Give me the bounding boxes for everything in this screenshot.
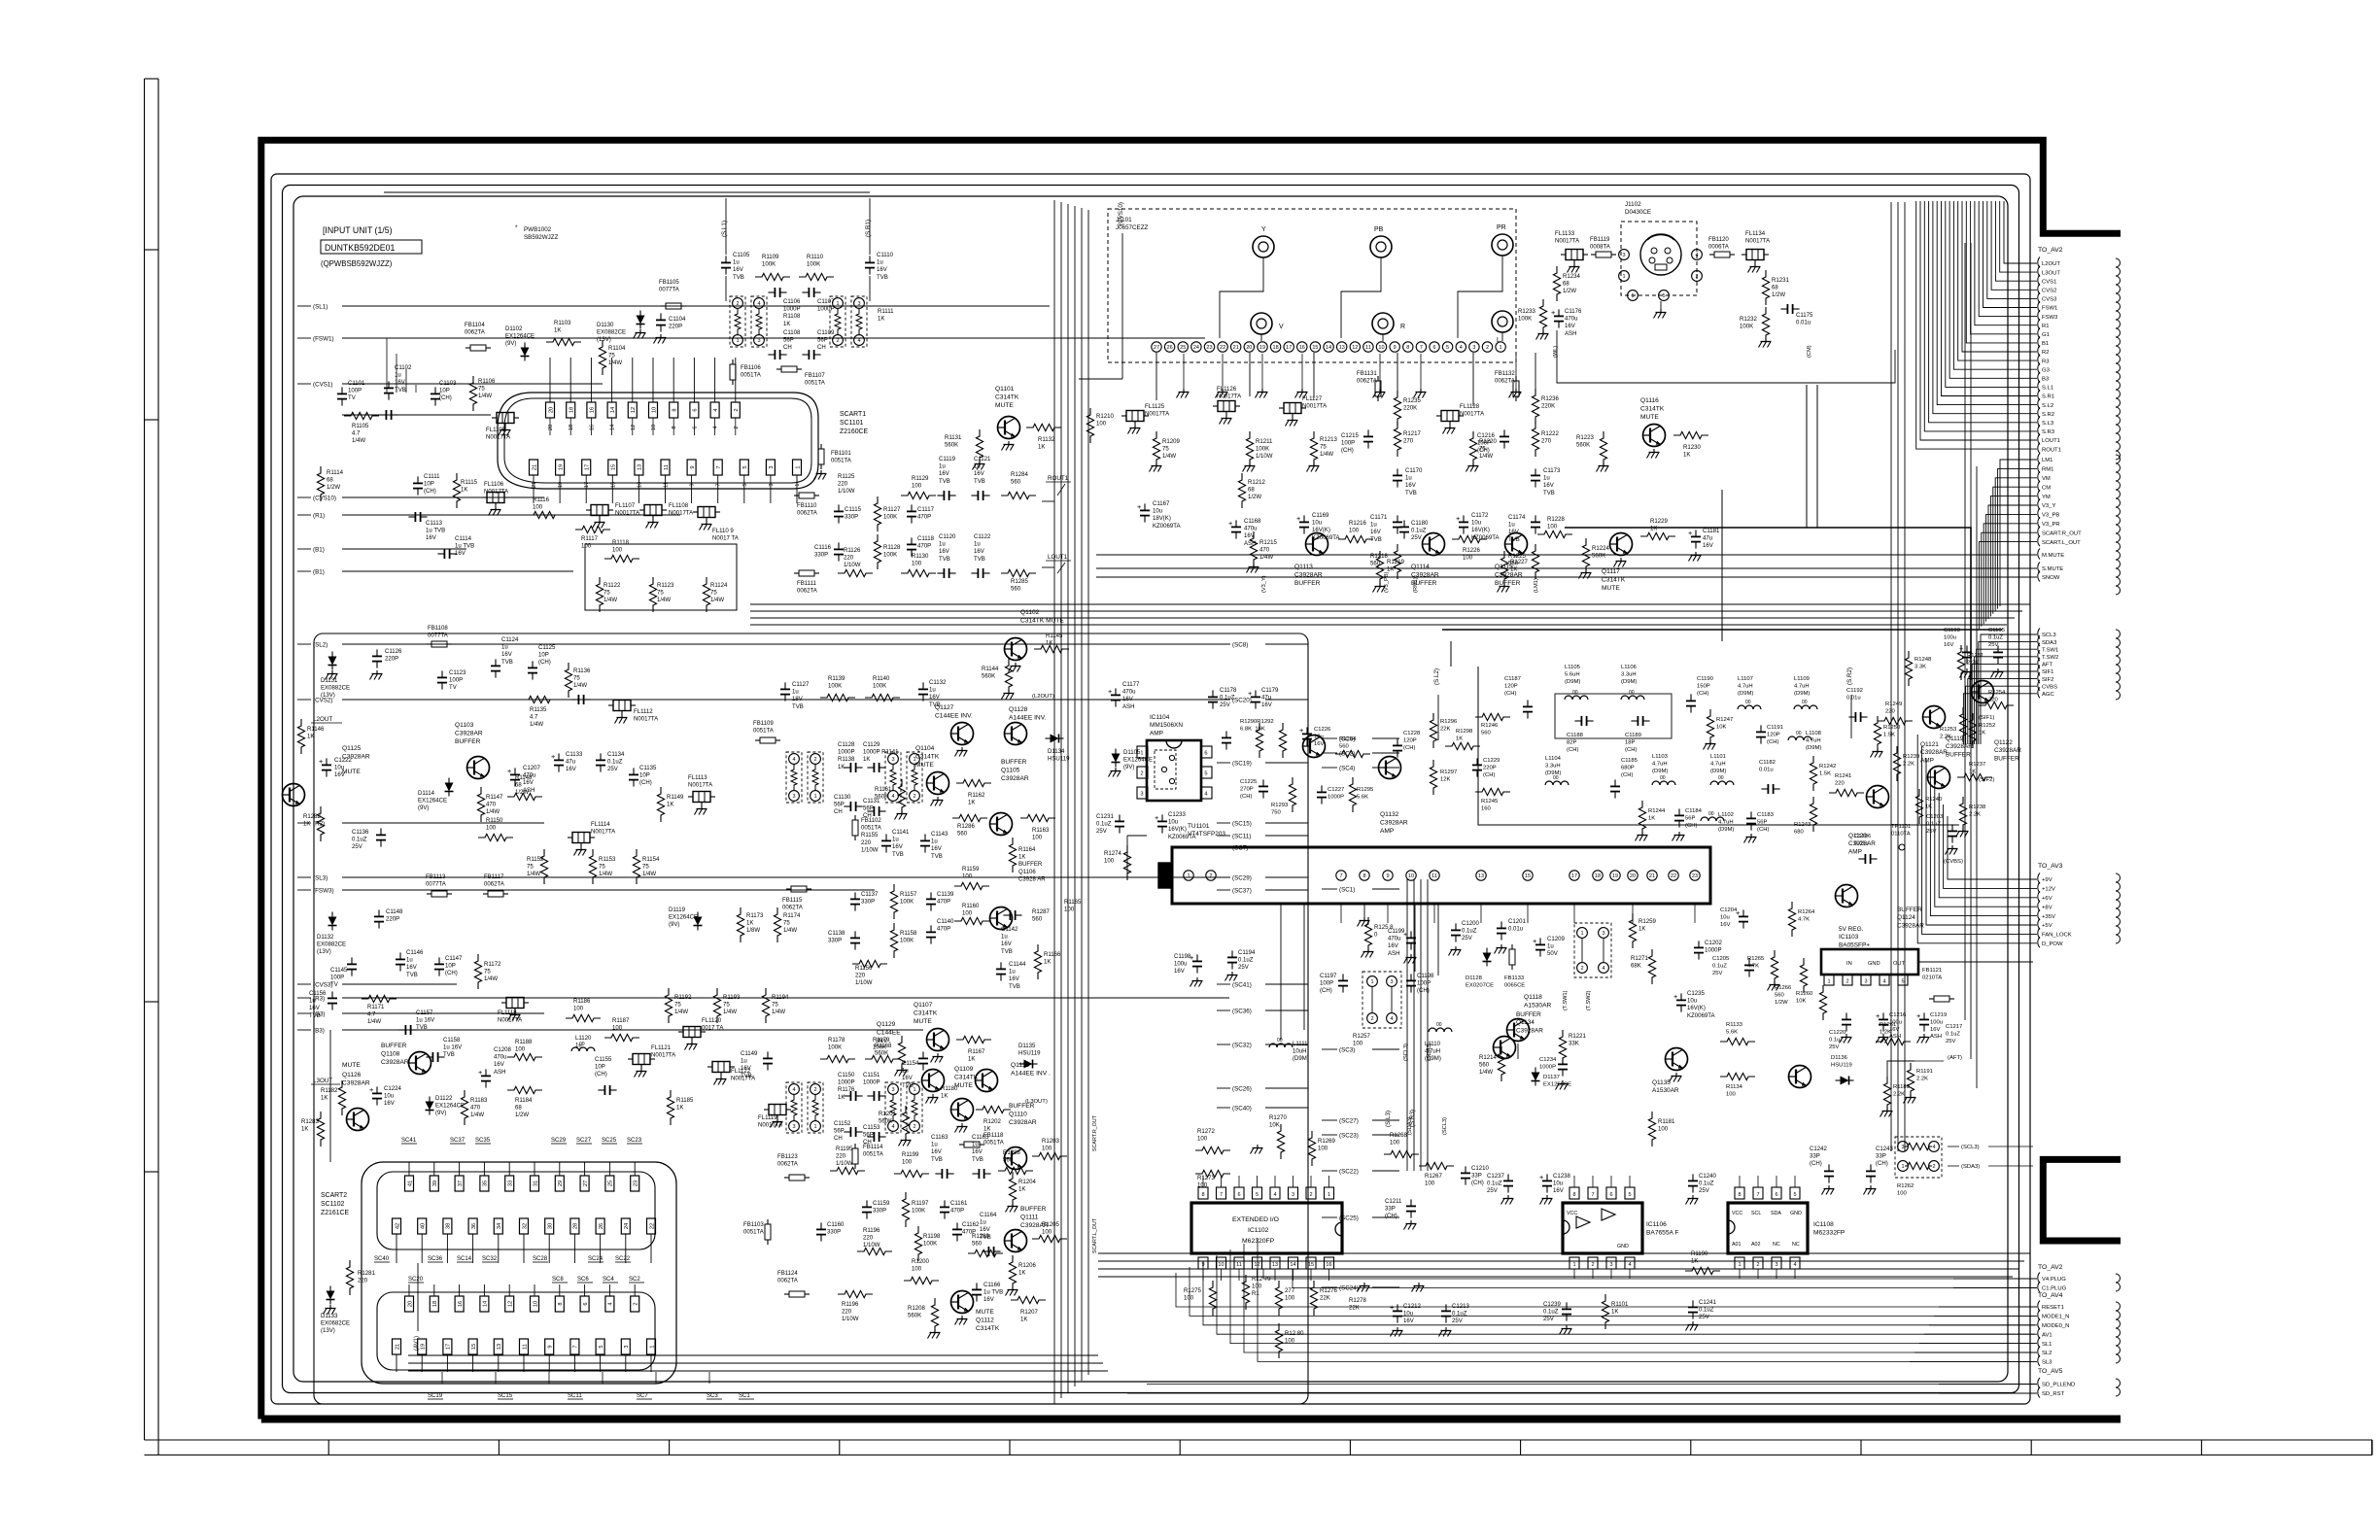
svg-text:R1189: R1189 <box>1893 1084 1910 1090</box>
svg-text:330P: 330P <box>814 553 828 559</box>
svg-text:2: 2 <box>1140 771 1143 777</box>
svg-text:1/4W: 1/4W <box>484 976 498 982</box>
svg-text:(CH): (CH) <box>1810 1161 1822 1167</box>
net SL3 <box>2038 1355 2040 1366</box>
svg-text:13: 13 <box>497 1344 502 1350</box>
svg-text:4: 4 <box>1602 966 1604 972</box>
svg-text:C1119: C1119 <box>939 457 956 462</box>
resistor R1183 470 1/4W <box>461 1090 467 1125</box>
svg-text:INV .: INV . <box>877 1038 891 1044</box>
svg-text:20: 20 <box>407 1301 413 1307</box>
resistor R1123 75 1/4W <box>649 577 656 612</box>
zener D1128 EX0207CE <box>1483 953 1492 962</box>
svg-text:270: 270 <box>1541 439 1552 445</box>
capacitor C1181 47u 16V <box>1691 535 1701 537</box>
svg-text:R1203: R1203 <box>1042 1139 1059 1145</box>
svg-text:1000P: 1000P <box>783 307 801 313</box>
capacitor C1140 470P <box>926 931 936 933</box>
capacitor C1149 1u 16V TVB <box>763 1057 773 1059</box>
svg-text:L3OUT: L3OUT <box>2042 270 2060 276</box>
diode D1134 HSU119 <box>1051 735 1059 743</box>
svg-text:C1219: C1219 <box>1930 1012 1947 1018</box>
svg-text:47u: 47u <box>566 760 575 766</box>
transistor Q1118 A1530AR <box>1507 1019 1530 1042</box>
svg-text:R1238: R1238 <box>1969 804 1986 810</box>
svg-text:1: 1 <box>1580 931 1583 937</box>
svg-text:16V: 16V <box>1703 543 1714 549</box>
svg-text:R1196: R1196 <box>863 1228 880 1234</box>
svg-text:220K: 220K <box>1541 404 1555 410</box>
net +5V power <box>2038 919 2040 930</box>
svg-text:4.7uH: 4.7uH <box>1738 683 1753 689</box>
svg-text:TVB: TVB <box>1370 537 1382 543</box>
resistor R1126 220 1/10W <box>838 569 873 576</box>
svg-text:220: 220 <box>358 1279 368 1284</box>
capacitor C1195 0.1uZ 25V <box>1993 651 2003 653</box>
svg-text:0062TA: 0062TA <box>797 589 818 595</box>
svg-text:(CH): (CH) <box>1876 1161 1888 1167</box>
svg-text:C1115: C1115 <box>845 507 862 513</box>
svg-text:0.01u: 0.01u <box>1854 840 1869 846</box>
svg-text:R1140: R1140 <box>873 676 890 682</box>
svg-text:13: 13 <box>1478 873 1484 879</box>
svg-text:100: 100 <box>573 1007 584 1012</box>
svg-text:470u: 470u <box>1565 317 1578 323</box>
svg-text:1/10W: 1/10W <box>838 489 855 495</box>
svg-text:C1108: C1108 <box>783 330 801 336</box>
capacitor C1110 1u 16V TVB <box>865 261 875 263</box>
svg-text:1u: 1u <box>501 645 508 651</box>
svg-text:2.2K: 2.2K <box>1916 1076 1928 1081</box>
svg-text:14: 14 <box>1326 345 1331 351</box>
resistor R1260 10K <box>1819 985 1826 1020</box>
svg-text:4: 4 <box>1695 253 1698 258</box>
svg-text:100: 100 <box>486 826 497 832</box>
svg-text:+: + <box>1228 519 1232 528</box>
svg-text:1u: 1u <box>575 1044 582 1049</box>
svg-text:3: 3 <box>769 465 775 468</box>
resistor R1223 560K <box>1600 431 1606 466</box>
svg-text:560: 560 <box>1011 480 1021 486</box>
resistor R1131 560K <box>976 429 983 464</box>
svg-text:L1120: L1120 <box>575 1036 592 1042</box>
svg-text:560K: 560K <box>945 443 958 449</box>
resistor R1212 68 1/2W <box>1238 473 1245 508</box>
svg-text:270: 270 <box>1403 439 1414 445</box>
SCART2 upper pins row2 <box>393 1218 401 1234</box>
svg-text:7: 7 <box>1339 873 1342 879</box>
svg-text:D1128: D1128 <box>1466 975 1483 981</box>
svg-text:18V(K): 18V(K) <box>1153 516 1171 522</box>
SCART2 lower pins row2 <box>393 1339 401 1354</box>
svg-text:R1134: R1134 <box>1726 1084 1743 1090</box>
svg-text:(SC41): (SC41) <box>1232 981 1252 988</box>
inner bus loop 3 <box>293 196 2008 1382</box>
svg-text:1/2W: 1/2W <box>515 790 529 796</box>
capacitor C1150 1000P <box>849 1091 851 1101</box>
svg-text:C3928AR: C3928AR <box>1495 571 1523 578</box>
svg-text:R1158: R1158 <box>900 931 917 937</box>
svg-text:15: 15 <box>1312 345 1318 351</box>
svg-text:100K: 100K <box>900 900 914 906</box>
svg-text:34: 34 <box>497 1223 502 1229</box>
svg-text:C1134: C1134 <box>607 752 625 758</box>
net L3OUT to AV2 <box>2038 266 2040 277</box>
diode D1114 EX1264CE 9V <box>445 783 454 792</box>
svg-text:1/4W: 1/4W <box>1320 452 1333 458</box>
resistor R1207 1K <box>1011 1296 1046 1303</box>
svg-text:C1110: C1110 <box>877 253 894 258</box>
svg-text:3: 3 <box>1390 979 1393 985</box>
svg-text:12: 12 <box>631 407 637 413</box>
svg-text:R1104: R1104 <box>608 346 626 352</box>
svg-text:TV: TV <box>348 395 357 401</box>
svg-text:C144EE INV.: C144EE INV. <box>935 712 973 719</box>
svg-text:TV: TV <box>449 685 458 691</box>
capacitor C1243 33P CH <box>1866 1170 1876 1172</box>
svg-text:25V: 25V <box>1096 829 1108 835</box>
thick frame bracket right-bottom <box>2043 1159 2121 1241</box>
svg-text:M62320FP: M62320FP <box>1242 1238 1275 1245</box>
capacitor C1185 680P CH <box>1610 785 1620 787</box>
svg-text:(CH): (CH) <box>1320 988 1332 994</box>
svg-text:68: 68 <box>1563 282 1569 288</box>
svg-text:(SIF1): (SIF1) <box>1979 715 1994 721</box>
svg-text:5: 5 <box>1204 771 1207 777</box>
filter FL1113 N0017TA <box>693 792 710 803</box>
resistor R1298 1K <box>1445 742 1480 749</box>
svg-text:8: 8 <box>1572 1192 1575 1198</box>
svg-text:R1206: R1206 <box>1018 1263 1036 1269</box>
svg-text:RESET1: RESET1 <box>2042 1305 2064 1311</box>
resistor R1289 560 <box>968 1249 1003 1256</box>
capacitor C1193 100u 16V <box>1962 651 1972 653</box>
svg-text:10P: 10P <box>538 653 549 659</box>
svg-text:R1161: R1161 <box>875 787 892 793</box>
svg-text:10u: 10u <box>1168 820 1178 826</box>
svg-text:RM1: RM1 <box>2042 467 2053 473</box>
svg-text:Q1122: Q1122 <box>1994 739 2013 746</box>
svg-text:220: 220 <box>838 482 848 488</box>
svg-text:C1127: C1127 <box>792 682 810 688</box>
bead FB1103 0051TA <box>765 1224 771 1240</box>
svg-text:100K: 100K <box>1256 447 1269 453</box>
svg-text:R1217: R1217 <box>1403 431 1421 437</box>
svg-text:25: 25 <box>1180 345 1186 351</box>
svg-text:SCART.R_OUT: SCART.R_OUT <box>2042 530 2082 536</box>
svg-text:C3928AR: C3928AR <box>1897 922 1924 929</box>
svg-text:TVB: TVB <box>1009 984 1020 990</box>
phase network block C1106 area <box>730 296 745 347</box>
svg-text:GND: GND <box>1868 961 1880 967</box>
svg-text:C1202: C1202 <box>1705 941 1722 946</box>
svg-text:SC15: SC15 <box>498 1393 513 1399</box>
svg-text:R1211: R1211 <box>1256 439 1273 445</box>
capacitor C1122 1u 16V TVB <box>977 568 979 578</box>
svg-text:R1223: R1223 <box>1576 435 1594 441</box>
svg-text:MUTE: MUTE <box>914 1018 932 1025</box>
resistor R1181 100 <box>1648 1112 1655 1146</box>
svg-text:(D9M): (D9M) <box>1425 1056 1441 1062</box>
svg-text:1K: 1K <box>983 1127 990 1133</box>
net T.SW1 <box>2038 643 2040 654</box>
svg-text:C1163: C1163 <box>931 1135 949 1141</box>
svg-text:10u: 10u <box>1553 1181 1563 1187</box>
svg-text:56P: 56P <box>863 1133 874 1139</box>
svg-text:TO_AV3: TO_AV3 <box>2038 863 2063 870</box>
svg-text:22K: 22K <box>1320 1296 1330 1302</box>
svg-text:N0017TA: N0017TA <box>486 435 511 441</box>
svg-text:A144EE INV.: A144EE INV. <box>1009 714 1046 721</box>
svg-text:16V: 16V <box>974 549 985 555</box>
svg-text:1/4W: 1/4W <box>1259 555 1273 561</box>
svg-text:R1133: R1133 <box>1726 1022 1743 1028</box>
svg-text:560K: 560K <box>982 674 995 680</box>
svg-text:1u: 1u <box>939 542 946 548</box>
svg-text:1/10W: 1/10W <box>861 847 879 853</box>
svg-text:C1208: C1208 <box>494 1047 511 1053</box>
svg-text:BUFFER: BUFFER <box>1009 1103 1035 1110</box>
svg-text:1u: 1u <box>733 260 740 266</box>
wavy TO_AV2 bottom <box>2116 1274 2121 1291</box>
svg-text:Q1124: Q1124 <box>1897 914 1915 921</box>
svg-text:68: 68 <box>515 783 522 789</box>
svg-text:D0430CE: D0430CE <box>1625 209 1651 216</box>
resistor R1117 100 <box>575 526 610 532</box>
wires bottom ICs to right bracket <box>1176 1273 2035 1307</box>
svg-text:R1196: R1196 <box>842 1302 859 1308</box>
svg-text:OUT: OUT <box>1893 961 1906 967</box>
resistor R1105 4.7 <box>344 412 379 419</box>
resistor R1197 100K <box>902 1192 909 1227</box>
svg-text:100: 100 <box>612 1026 623 1032</box>
svg-text:R1242: R1242 <box>1819 764 1836 770</box>
svg-text:4: 4 <box>1390 1016 1393 1022</box>
svg-text:1/2W: 1/2W <box>515 1112 529 1118</box>
svg-text:18P: 18P <box>1625 739 1636 745</box>
svg-text:37: 37 <box>458 1181 464 1186</box>
svg-text:75: 75 <box>478 387 485 393</box>
svg-text:C1122: C1122 <box>974 534 991 540</box>
svg-text:220P: 220P <box>386 917 399 923</box>
svg-text:A144EE INV .: A144EE INV . <box>1011 1070 1051 1077</box>
svg-text:0062TA: 0062TA <box>484 882 505 888</box>
svg-text:IN: IN <box>1846 961 1852 967</box>
svg-text:1: 1 <box>795 483 801 486</box>
capacitor C1224 10u 16V <box>372 1092 382 1094</box>
diode D1133 EX0682CE <box>327 1291 335 1300</box>
svg-text:R1260: R1260 <box>1796 991 1813 997</box>
svg-text:TVB: TVB <box>877 275 888 281</box>
svg-text:C1226: C1226 <box>1314 727 1331 733</box>
IC1108 M62332FP <box>1728 1203 1808 1253</box>
svg-text:2.2K: 2.2K <box>1893 1091 1905 1097</box>
capacitor C1128 1000P labels <box>849 763 851 772</box>
svg-text:R1157: R1157 <box>900 892 917 898</box>
svg-text:25V: 25V <box>1699 1188 1710 1194</box>
capacitor C1116 330P <box>834 548 844 550</box>
svg-text:S.L2: S.L2 <box>2042 403 2053 409</box>
svg-text:FL1127: FL1127 <box>1302 396 1323 402</box>
svg-text:TVB: TVB <box>792 704 804 710</box>
svg-text:16V: 16V <box>892 844 904 850</box>
svg-text:1/4W: 1/4W <box>486 809 500 815</box>
svg-text:C1238: C1238 <box>1553 1174 1570 1180</box>
svg-text:00: 00 <box>1629 690 1635 696</box>
svg-text:0062TA: 0062TA <box>1357 379 1378 385</box>
svg-text:(SC20): (SC20) <box>1232 697 1252 703</box>
bead FB1105 0077TA <box>666 303 681 309</box>
svg-text:R1159: R1159 <box>962 867 980 873</box>
svg-text:25: 25 <box>608 1181 614 1186</box>
svg-text:C1170: C1170 <box>1405 468 1423 474</box>
svg-text:1K: 1K <box>878 317 884 323</box>
svg-text:FB1107: FB1107 <box>805 373 825 379</box>
J1101 pin grounds <box>1183 389 1185 393</box>
svg-text:15: 15 <box>611 464 617 470</box>
svg-text:C1105: C1105 <box>733 253 750 258</box>
svg-text:C1152: C1152 <box>834 1121 851 1127</box>
svg-text:N0017TA: N0017TA <box>484 490 509 496</box>
svg-text:R1162: R1162 <box>968 793 985 799</box>
svg-text:82P: 82P <box>1567 739 1577 745</box>
svg-text:R1235: R1235 <box>1403 398 1421 404</box>
svg-text:4.7: 4.7 <box>352 431 361 437</box>
svg-text:56P: 56P <box>1757 819 1768 825</box>
svg-text:4: 4 <box>1460 345 1463 351</box>
svg-text:C1222: C1222 <box>334 758 352 764</box>
svg-text:1K: 1K <box>676 1106 683 1112</box>
svg-text:220K: 220K <box>1403 406 1417 412</box>
svg-text:L1108: L1108 <box>1806 731 1822 736</box>
inductor L1102 4.7uH D9M <box>1701 817 1724 821</box>
transistor Q1129 <box>922 1070 945 1092</box>
svg-text:VT4TSFP203: VT4TSFP203 <box>1188 831 1225 838</box>
svg-text:EX0682CE: EX0682CE <box>321 1321 350 1327</box>
svg-text:160: 160 <box>1481 805 1492 811</box>
svg-text:NC: NC <box>1773 1242 1780 1248</box>
svg-text:C1147: C1147 <box>445 956 463 962</box>
svg-text:J0657CEZZ: J0657CEZZ <box>1116 224 1149 231</box>
resistor R1208 560K <box>931 1298 938 1333</box>
svg-text:100K: 100K <box>873 684 886 690</box>
resistor R1297 12K <box>1430 760 1436 795</box>
svg-text:17: 17 <box>585 464 591 470</box>
svg-text:1u: 1u <box>939 464 946 470</box>
net V3_PR <box>2038 517 2040 528</box>
svg-text:A1530AR: A1530AR <box>1524 1002 1552 1009</box>
resistor R1133 5.6K <box>1720 1038 1755 1044</box>
svg-text:TVB: TVB <box>974 479 985 485</box>
svg-text:SCL: SCL <box>1751 1211 1761 1216</box>
svg-text:C1211: C1211 <box>1385 1199 1402 1205</box>
svg-text:2: 2 <box>1580 966 1583 972</box>
bead FB1107 0051TA <box>781 366 797 372</box>
resistor R1188 100 <box>507 1053 542 1060</box>
svg-text:R1123: R1123 <box>657 583 674 589</box>
svg-text:R1231: R1231 <box>1772 278 1789 284</box>
svg-text:J1101: J1101 <box>1116 217 1132 223</box>
svg-text:FL1119: FL1119 <box>758 1115 777 1121</box>
svg-text:C1161: C1161 <box>950 1201 968 1207</box>
svg-text:+: + <box>1539 1173 1543 1181</box>
capacitor C1120 1u 16V TVB <box>943 568 945 578</box>
svg-text:+9V: +9V <box>2042 877 2052 883</box>
resistor R1232 100K <box>1762 307 1769 342</box>
svg-text:FB1111: FB1111 <box>797 581 817 587</box>
svg-text:N0017TA: N0017TA <box>1217 394 1242 400</box>
svg-text:220: 220 <box>1988 697 1999 702</box>
svg-text:V3_PR: V3_PR <box>2042 522 2060 528</box>
svg-text:(S.L3): (S.L3) <box>1385 1111 1392 1127</box>
svg-text:8: 8 <box>672 426 677 428</box>
svg-text:75: 75 <box>527 865 534 871</box>
svg-text:C1210: C1210 <box>1471 1166 1489 1172</box>
svg-text:0051TA: 0051TA <box>863 1152 884 1158</box>
svg-text:1/4W: 1/4W <box>530 722 543 728</box>
capacitor C1138 330P <box>850 937 860 939</box>
svg-text:R1122: R1122 <box>604 583 621 589</box>
svg-text:26: 26 <box>1167 345 1173 351</box>
svg-text:1: 1 <box>1328 1192 1330 1198</box>
svg-text:R1150: R1150 <box>486 818 503 824</box>
svg-text:(CH): (CH) <box>1621 772 1633 778</box>
svg-text:R1110: R1110 <box>807 255 824 260</box>
svg-text:R1240: R1240 <box>1925 797 1943 803</box>
svg-text:SC8: SC8 <box>552 1277 564 1283</box>
filter FL1112 N0017TA <box>613 701 631 711</box>
svg-text:8: 8 <box>1362 873 1365 879</box>
svg-text:25V: 25V <box>1829 1044 1840 1050</box>
svg-text:100K: 100K <box>883 515 897 521</box>
svg-text:(CH): (CH) <box>1757 827 1769 833</box>
svg-text:(CH): (CH) <box>1477 448 1490 454</box>
svg-text:680P: 680P <box>1621 765 1635 770</box>
capacitor C1136 0.1uZ 25V <box>376 834 386 836</box>
svg-text:21: 21 <box>1233 345 1239 351</box>
svg-text:N0017TA: N0017TA <box>1302 404 1328 410</box>
svg-text:16V: 16V <box>939 549 950 555</box>
svg-text:47u: 47u <box>1261 696 1271 702</box>
capacitor C1190 150P CH <box>1686 700 1696 702</box>
svg-text:21: 21 <box>395 1344 400 1350</box>
bead FB1132 0062TA <box>1513 381 1519 396</box>
wire top S audio <box>384 191 870 193</box>
svg-text:R1221: R1221 <box>1569 1034 1586 1040</box>
resistor R1265 4.7K <box>1771 950 1777 985</box>
svg-text:J1102: J1102 <box>1625 201 1641 208</box>
svg-text:5: 5 <box>1628 1192 1631 1198</box>
svg-text:R1173: R1173 <box>746 913 764 919</box>
svg-text:R1132: R1132 <box>1038 437 1055 443</box>
svg-text:Q1116: Q1116 <box>1640 397 1659 404</box>
svg-text:75: 75 <box>642 865 649 871</box>
svg-text:Q1115: Q1115 <box>1495 564 1513 570</box>
svg-text:10u: 10u <box>384 1094 394 1100</box>
svg-text:C1216: C1216 <box>1477 433 1495 439</box>
svg-text:16V(K): 16V(K) <box>1168 827 1187 833</box>
svg-text:VM: VM <box>2042 476 2051 482</box>
resistor R1139 100K <box>820 694 855 701</box>
resistor R1276 22K <box>1310 1281 1317 1316</box>
svg-text:C1193: C1193 <box>1944 628 1961 633</box>
svg-text:4: 4 <box>891 794 894 800</box>
svg-text:1000P: 1000P <box>838 750 855 756</box>
svg-text:R1191: R1191 <box>1916 1069 1933 1075</box>
svg-text:16V: 16V <box>384 1101 396 1107</box>
capacitor C1228 120P CH <box>1393 744 1402 746</box>
svg-text:N0017TA: N0017TA <box>1460 412 1485 418</box>
